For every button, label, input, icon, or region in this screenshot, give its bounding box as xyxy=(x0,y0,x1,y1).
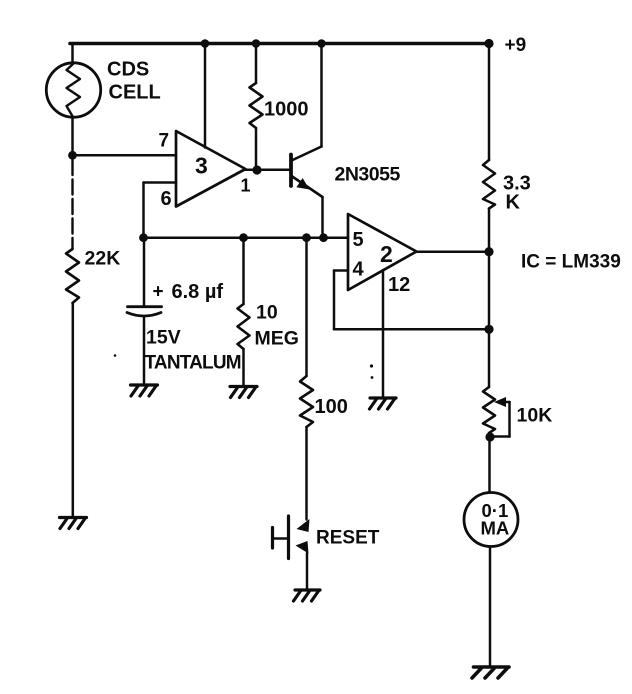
svg-text:2N3055: 2N3055 xyxy=(335,164,401,186)
svg-text:+9: +9 xyxy=(505,35,527,56)
svg-text:2: 2 xyxy=(380,241,393,267)
svg-text:1: 1 xyxy=(241,176,251,196)
svg-text:MEG: MEG xyxy=(255,328,299,350)
svg-text:3: 3 xyxy=(195,153,208,179)
svg-text:MA: MA xyxy=(481,518,510,539)
svg-text:1000: 1000 xyxy=(264,99,309,121)
svg-text:K: K xyxy=(506,192,521,214)
svg-text:+: + xyxy=(153,282,164,303)
svg-text:10K: 10K xyxy=(517,405,553,427)
svg-text:12: 12 xyxy=(388,274,410,296)
svg-text:4: 4 xyxy=(353,259,365,281)
svg-text:100: 100 xyxy=(315,396,348,418)
svg-text:IC = LM339: IC = LM339 xyxy=(521,252,621,273)
svg-text:10: 10 xyxy=(256,302,278,324)
svg-text:6: 6 xyxy=(161,188,172,210)
svg-text:RESET: RESET xyxy=(316,528,380,549)
svg-text:5: 5 xyxy=(353,229,364,251)
svg-text:CELL: CELL xyxy=(109,82,161,104)
svg-text:7: 7 xyxy=(159,131,170,152)
svg-text:15V: 15V xyxy=(146,327,181,349)
svg-text:6.8 µf: 6.8 µf xyxy=(172,281,224,303)
svg-text:CDS: CDS xyxy=(107,59,149,81)
svg-text:22K: 22K xyxy=(85,248,121,270)
svg-text:TANTALUM: TANTALUM xyxy=(145,353,241,374)
